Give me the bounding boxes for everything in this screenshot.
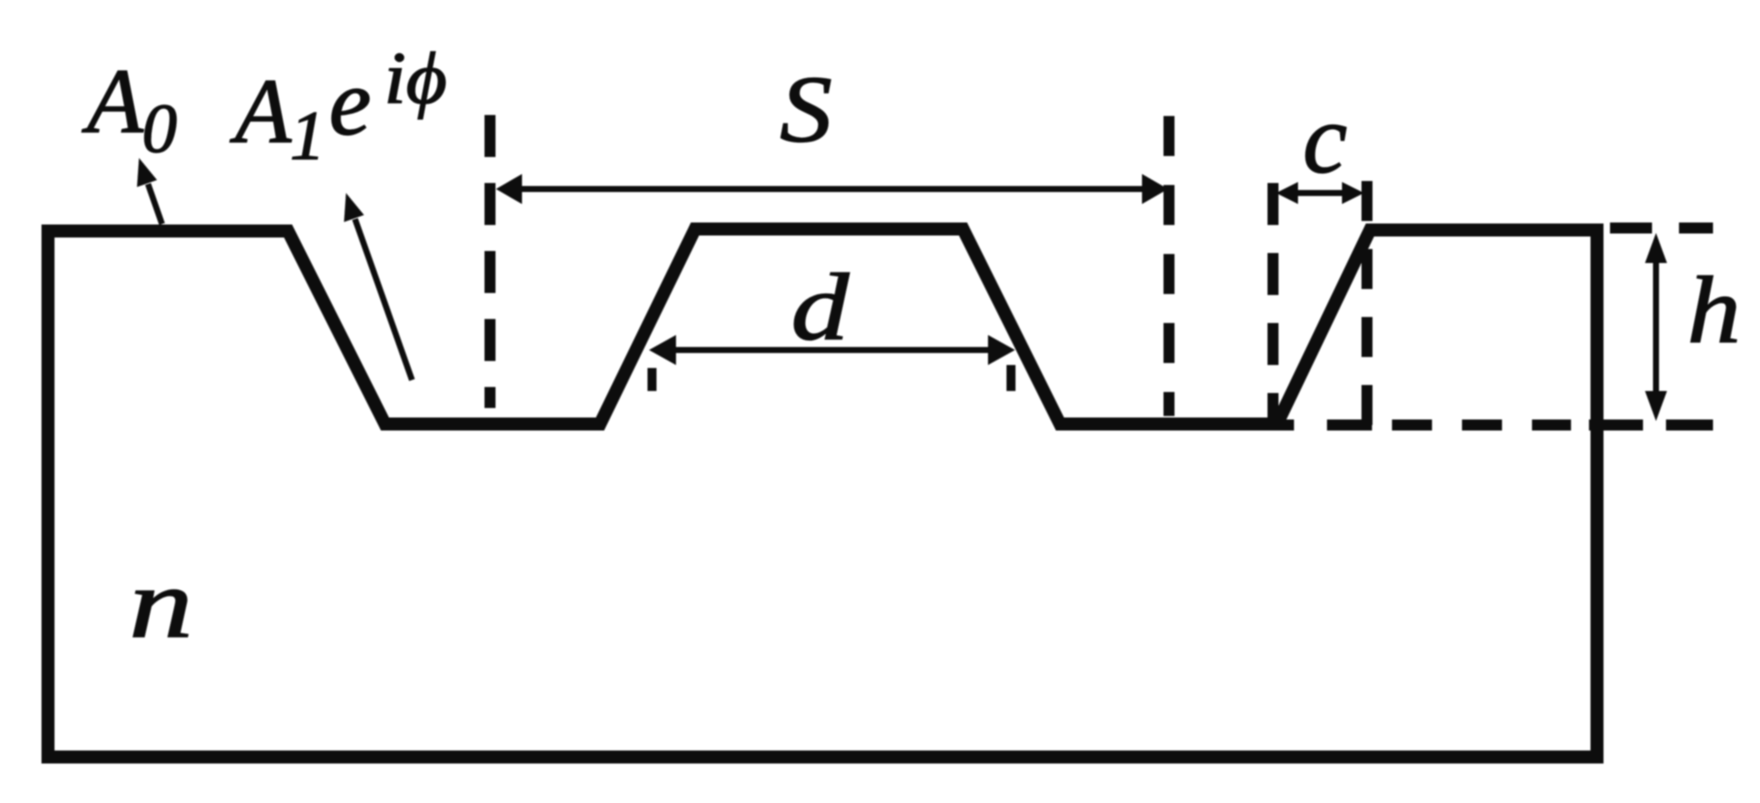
dimension arrow h — [1645, 233, 1667, 421]
dimension arrow d — [649, 335, 1015, 365]
d boundary tick left — [648, 368, 657, 391]
node S right boundary dashed line — [1164, 116, 1175, 416]
svg-text:S: S — [780, 56, 832, 162]
svg-text:A: A — [229, 60, 292, 162]
svg-text:1: 1 — [290, 98, 325, 175]
svg-text:h: h — [1687, 258, 1741, 363]
grating substrate outline — [48, 229, 1597, 757]
svg-text:e: e — [329, 49, 371, 155]
node c right boundary dashed line — [1362, 181, 1373, 432]
d boundary tick right — [1007, 365, 1016, 391]
svg-text:n: n — [129, 548, 193, 659]
node c left boundary dashed line — [1268, 183, 1279, 428]
svg-text:c: c — [1303, 83, 1347, 194]
bottom reference dashed line for h — [1277, 420, 1713, 431]
svg-text:A: A — [81, 50, 144, 152]
leader arrow for A1 — [344, 193, 412, 380]
dimension arrow c — [1276, 182, 1364, 204]
svg-text:0: 0 — [142, 91, 177, 168]
top reference dashed line for h — [1610, 223, 1713, 234]
node S left boundary dashed line — [485, 115, 496, 408]
dimension arrow S — [496, 174, 1168, 204]
svg-text:d: d — [791, 255, 850, 360]
leader arrow for A0 — [137, 158, 162, 224]
svg-text:iϕ: iϕ — [384, 38, 447, 120]
